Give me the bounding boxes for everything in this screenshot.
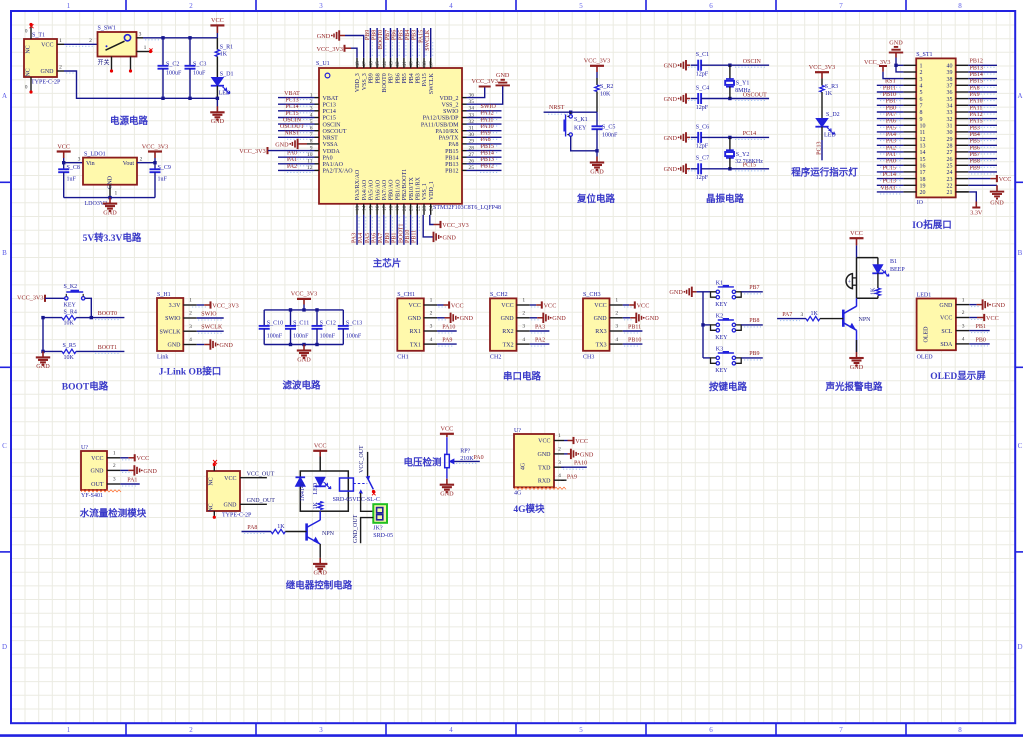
- svg-text:18: 18: [920, 177, 926, 183]
- svg-text:1K: 1K: [220, 52, 228, 58]
- svg-text:41: 41: [402, 61, 408, 67]
- pin 19 PB1/AO of S_U1 (bottom): [396, 204, 398, 215]
- wire / net label PA9: [971, 100, 995, 102]
- svg-text:PB6: PB6: [392, 30, 398, 40]
- wire / net label PB4: [412, 42, 414, 56]
- svg-text:10K: 10K: [64, 320, 75, 326]
- svg-text:SRD-05: SRD-05: [373, 533, 393, 539]
- svg-text:VCC: VCC: [940, 316, 952, 322]
- svg-text:CH2: CH2: [490, 355, 501, 361]
- svg-text:PB8: PB8: [749, 318, 759, 324]
- wire / net label PA10: [438, 332, 454, 334]
- svg-text:PB13: PB13: [445, 162, 458, 168]
- svg-text:S_K2: S_K2: [64, 284, 78, 290]
- svg-text:PB15: PB15: [481, 144, 494, 150]
- switch S_SW1: [98, 32, 137, 57]
- svg-text:电压检测: 电压检测: [403, 457, 442, 469]
- svg-text:GND: GND: [580, 451, 594, 458]
- ground GND above S_U1 (VSS_3 pin 47): [338, 30, 340, 40]
- module LED1 OLED body: [917, 299, 956, 351]
- svg-text:GND: GND: [103, 209, 117, 216]
- svg-text:U?: U?: [81, 445, 88, 451]
- pin 34 of S_ST1: [956, 104, 969, 106]
- pin 1 of S_ST1: [903, 64, 916, 66]
- svg-text:1: 1: [558, 433, 561, 439]
- svg-text:S_R2: S_R2: [600, 84, 613, 90]
- svg-text:KEY: KEY: [715, 368, 728, 374]
- wire VDD_1 to VCC_3V3: [430, 215, 434, 225]
- svg-text:VSSA: VSSA: [323, 142, 339, 148]
- wire / net label PA7: [880, 120, 901, 122]
- svg-text:GND: GND: [664, 96, 678, 103]
- svg-text:S_C5: S_C5: [602, 125, 615, 131]
- wire / net label PA1: [287, 165, 313, 167]
- svg-text:3: 3: [522, 324, 525, 330]
- pin 20 of S_ST1: [903, 191, 916, 193]
- svg-text:A: A: [2, 92, 7, 100]
- svg-text:VCC: VCC: [57, 143, 70, 150]
- svg-text:开关: 开关: [98, 59, 110, 67]
- crystal S_Y1 8MHz: [729, 65, 731, 79]
- LED S_D2: [816, 119, 828, 127]
- pin 7 NRST of S_U1: [315, 136, 320, 138]
- wire / net label PA5: [880, 133, 901, 135]
- pin 12 of S_ST1: [903, 138, 916, 140]
- wire / net label PC14: [880, 180, 901, 182]
- pin 45 PB8 of S_U1 (top): [376, 58, 378, 68]
- pin 9 of S_ST1: [903, 118, 916, 120]
- pin 29 of S_ST1: [956, 138, 969, 140]
- pin 33 of S_ST1: [956, 111, 969, 113]
- svg-text:PA7: PA7: [886, 112, 896, 118]
- svg-text:S_LDO1: S_LDO1: [84, 151, 106, 157]
- svg-text:2: 2: [920, 70, 923, 76]
- crystal S_Y2 32.768KHz: [729, 137, 731, 150]
- svg-text:PC14: PC14: [883, 172, 896, 178]
- wire / net label PB7: [392, 42, 394, 56]
- svg-text:6: 6: [709, 2, 713, 10]
- svg-text:PA10: PA10: [574, 461, 587, 467]
- svg-text:42: 42: [395, 61, 401, 67]
- svg-text:GND: GND: [91, 469, 105, 475]
- svg-text:1K: 1K: [277, 524, 285, 530]
- svg-text:PB1/AO: PB1/AO: [395, 179, 401, 200]
- svg-text:2: 2: [189, 311, 192, 317]
- svg-text:BOOT电路: BOOT电路: [62, 381, 109, 393]
- pin 2 PC13 of S_U1: [315, 103, 320, 105]
- svg-text:GND: GND: [143, 468, 157, 475]
- wire / net label PA0: [287, 158, 313, 160]
- svg-text:4: 4: [522, 337, 525, 343]
- net label BOOT1: [95, 352, 120, 354]
- svg-text:PA0: PA0: [474, 455, 484, 461]
- wire K2 to BOOT0 row: [85, 298, 91, 317]
- svg-text:PB11: PB11: [628, 324, 641, 330]
- pin 0 (shell bottom) of S_T1: [30, 77, 32, 92]
- svg-text:S_D1: S_D1: [220, 71, 234, 77]
- pin 24 of S_ST1: [956, 171, 969, 173]
- capacitor S_C10 100nF: [263, 310, 265, 326]
- wire VSS_1 to GND: [423, 215, 433, 237]
- svg-text:GND: GND: [992, 302, 1006, 309]
- svg-text:24: 24: [429, 205, 435, 211]
- svg-text:16: 16: [920, 164, 926, 170]
- svg-text:GND: GND: [297, 356, 311, 363]
- connector S_T1 TYPE-C-2P: [24, 39, 57, 77]
- svg-text:PA8: PA8: [481, 137, 491, 143]
- svg-text:GND: GND: [664, 166, 678, 173]
- svg-text:2: 2: [430, 311, 433, 317]
- resistor S_R3 1K: [821, 79, 823, 86]
- svg-text:PA0: PA0: [886, 159, 896, 165]
- transistor NPN (alarm): [842, 310, 845, 327]
- svg-text:PB0/AO: PB0/AO: [389, 179, 395, 200]
- svg-text:PB7: PB7: [749, 285, 759, 291]
- resistor S_R1 1K: [216, 38, 218, 50]
- power VCC_3V3 at S_H1.1: [192, 306, 208, 308]
- pin 4 of S_ST1: [903, 84, 916, 86]
- svg-text:8: 8: [920, 110, 923, 116]
- wire / net label PB6: [971, 153, 995, 155]
- wire / net label PB9: [741, 357, 763, 359]
- capacitor S_C11 100nF: [290, 310, 292, 326]
- svg-text:PA4: PA4: [358, 233, 364, 243]
- svg-text:VCC_3V3: VCC_3V3: [317, 46, 343, 53]
- svg-text:PB11: PB11: [883, 85, 896, 91]
- svg-text:NPN: NPN: [859, 317, 872, 323]
- diode 1N4148 (flyback): [296, 476, 306, 478]
- svg-text:S_R5: S_R5: [63, 343, 76, 349]
- svg-text:VCC_3V3: VCC_3V3: [864, 59, 890, 66]
- push button K1 KEY: [716, 290, 719, 293]
- svg-text:1: 1: [67, 726, 71, 734]
- svg-text:GND: GND: [889, 39, 903, 46]
- svg-text:K3: K3: [716, 346, 723, 352]
- buzzer (speaker symbol): [846, 274, 852, 289]
- svg-text:SWIO: SWIO: [481, 104, 497, 110]
- svg-text:40: 40: [947, 64, 953, 70]
- svg-text:PB11: PB11: [412, 230, 418, 243]
- pin 32 of S_ST1: [956, 118, 969, 120]
- svg-text:3: 3: [962, 323, 965, 329]
- svg-text:PB8: PB8: [970, 159, 980, 165]
- svg-text:9: 9: [920, 117, 923, 123]
- ground GND (alarm): [856, 352, 858, 358]
- svg-text:1K: 1K: [811, 311, 819, 317]
- svg-text:Link: Link: [157, 354, 168, 360]
- svg-text:PA10: PA10: [970, 99, 983, 105]
- svg-text:BOOT0: BOOT0: [98, 311, 117, 317]
- wire / net label BOOT1: [405, 217, 407, 231]
- svg-text:BOOT0: BOOT0: [382, 73, 388, 92]
- svg-text:39: 39: [415, 61, 421, 67]
- svg-text:S_C7: S_C7: [696, 156, 709, 162]
- pin 28 of S_ST1: [956, 144, 969, 146]
- svg-text:45: 45: [375, 61, 381, 67]
- svg-text:PA12/USB/DP: PA12/USB/DP: [423, 116, 459, 122]
- svg-text:RST: RST: [885, 79, 896, 85]
- svg-text:PA3: PA3: [351, 233, 357, 243]
- svg-text:PA12: PA12: [481, 111, 494, 117]
- pin 4 PC15 of S_U1: [315, 117, 320, 119]
- wire / net label PB15: [971, 86, 995, 88]
- svg-text:4: 4: [615, 337, 618, 343]
- wire to button S_K2: [45, 297, 65, 299]
- resistor S_R5 10K: [43, 350, 62, 352]
- wire SW1.3 to VCC node: [145, 39, 160, 41]
- svg-text:VCC_OUT: VCC_OUT: [359, 445, 365, 473]
- svg-text:12pF: 12pF: [696, 175, 709, 181]
- wire / net label PB9: [371, 42, 373, 56]
- pin 47 VSS_3 of S_U1 (top): [363, 58, 365, 68]
- pin 40 PB4 of S_U1 (top): [410, 58, 412, 68]
- svg-text:6: 6: [709, 726, 713, 734]
- ground GND (filter): [303, 345, 305, 351]
- pin 0 (shell top) of S_T1: [30, 25, 32, 40]
- svg-text:PA2: PA2: [287, 164, 297, 170]
- svg-text:S_CH3: S_CH3: [583, 292, 601, 298]
- pin 13 of S_ST1: [903, 144, 916, 146]
- svg-text:B: B: [2, 249, 7, 257]
- svg-text:PB9: PB9: [749, 351, 759, 357]
- capacitor S_C12 100nF: [316, 310, 318, 326]
- svg-text:VCC: VCC: [637, 302, 650, 309]
- svg-text:GND: GND: [552, 315, 566, 322]
- svg-text:S_C8: S_C8: [67, 165, 80, 171]
- svg-text:PB9: PB9: [365, 30, 371, 40]
- wire / net label PB15: [480, 152, 499, 154]
- bottom pins of S_SW1 (unconnected): [111, 57, 113, 71]
- wire / net label PB10: [880, 100, 901, 102]
- svg-text:PC13: PC13: [883, 179, 896, 185]
- svg-text:RX2: RX2: [502, 329, 513, 335]
- header S_H1 (J-Link OB): [157, 298, 183, 351]
- svg-text:PB14: PB14: [970, 72, 983, 78]
- wire / net label PB3: [971, 133, 995, 135]
- svg-text:PA9: PA9: [970, 92, 980, 98]
- wire LDO Vout to VCC_3V3: [137, 162, 155, 164]
- pin 6 of S_ST1: [903, 98, 916, 100]
- pin 18 of S_ST1: [903, 178, 916, 180]
- wire / net label PB9: [971, 173, 995, 175]
- svg-text:36: 36: [947, 90, 953, 96]
- svg-text:TYPE-C-2P: TYPE-C-2P: [222, 513, 252, 519]
- wire alarm bottom rail: [857, 297, 878, 299]
- wire / net label PB0: [880, 113, 901, 115]
- svg-text:GND: GND: [408, 316, 422, 322]
- svg-text:10K: 10K: [64, 355, 75, 361]
- svg-text:PB7: PB7: [385, 30, 391, 40]
- wire / net label PA9: [438, 345, 454, 347]
- wire VCC_OUT to relay contact (rotated label): [367, 452, 369, 478]
- pin 39 of S_ST1: [956, 71, 969, 73]
- wire / net label PA1: [880, 160, 901, 162]
- svg-text:S_Y1: S_Y1: [736, 81, 750, 87]
- wire / net label PB7: [741, 291, 763, 293]
- pin 5 of S_ST1: [903, 91, 916, 93]
- svg-text:SWCLK: SWCLK: [429, 73, 435, 95]
- ground GND (BOOT): [41, 350, 44, 353]
- svg-text:PA1: PA1: [886, 152, 896, 158]
- svg-text:S_K1: S_K1: [574, 117, 588, 123]
- svg-text:PB7: PB7: [970, 152, 980, 158]
- svg-text:BOOT0: BOOT0: [378, 30, 384, 49]
- pin 3 PC14 of S_U1: [315, 110, 320, 112]
- wire / net label PA5: [371, 217, 373, 231]
- terminal JK? SRD-05 (green connector): [373, 504, 387, 523]
- svg-text:NC: NC: [26, 68, 32, 76]
- wire / net label SWIO: [480, 112, 499, 114]
- svg-text:STM32F103C8T6_LQFP48: STM32F103C8T6_LQFP48: [433, 205, 501, 211]
- svg-text:VCC: VCC: [451, 302, 464, 309]
- pin 15 PA5/AO of S_U1 (bottom): [369, 204, 371, 215]
- wire base / resistor 1K / net label PA8: [242, 531, 272, 533]
- svg-text:8: 8: [958, 2, 962, 10]
- pin 34 SWIO of S_U1 (right): [462, 110, 467, 112]
- pin 31 of S_ST1: [956, 124, 969, 126]
- svg-text:PB8: PB8: [375, 73, 381, 83]
- svg-text:S_C4: S_C4: [696, 85, 709, 91]
- svg-text:SWCLK: SWCLK: [425, 29, 431, 51]
- svg-text:PC15: PC15: [285, 111, 298, 117]
- pin 37 SWCLK of S_U1 (top): [430, 58, 432, 68]
- pin 10 of S_ST1: [903, 124, 916, 126]
- svg-text:GND: GND: [41, 69, 55, 75]
- wire emitter to GND (alarm): [856, 330, 858, 352]
- svg-text:5V转3.3V电路: 5V转3.3V电路: [83, 232, 142, 244]
- svg-text:CH3: CH3: [583, 355, 594, 361]
- wire / net label PA9: [480, 138, 499, 140]
- svg-text:GND: GND: [211, 118, 225, 125]
- wire / net label PA1: [122, 485, 138, 487]
- svg-text:VCC: VCC: [211, 17, 224, 24]
- wire / net label PA4: [880, 140, 901, 142]
- pin 28 PB15 of S_U1 (right): [462, 150, 467, 152]
- svg-text:8: 8: [958, 726, 962, 734]
- wire / net label NRST: [287, 138, 313, 140]
- wire / net label PA2: [531, 345, 547, 347]
- svg-text:VCC: VCC: [538, 439, 550, 445]
- svg-text:NC: NC: [26, 45, 32, 53]
- header S_ST1 body: [916, 58, 956, 197]
- svg-text:32: 32: [947, 117, 953, 123]
- svg-text:3: 3: [319, 2, 323, 10]
- svg-text:20: 20: [920, 190, 926, 196]
- push button K3 KEY: [716, 356, 719, 359]
- svg-text:38: 38: [947, 77, 953, 83]
- svg-text:26: 26: [947, 157, 953, 163]
- svg-text:PA2: PA2: [886, 145, 896, 151]
- svg-text:37: 37: [429, 61, 435, 67]
- svg-text:1uF: 1uF: [158, 176, 168, 182]
- pin 22 PB11/RX of S_U1 (bottom): [416, 204, 418, 215]
- svg-text:4: 4: [558, 473, 561, 479]
- svg-text:VCC_3V3: VCC_3V3: [212, 302, 238, 309]
- svg-text:4G: 4G: [514, 491, 522, 497]
- svg-text:PA11: PA11: [970, 105, 983, 111]
- svg-text:7: 7: [920, 104, 923, 110]
- svg-text:31: 31: [947, 124, 953, 130]
- svg-text:PA15: PA15: [422, 73, 428, 86]
- svg-text:PB0: PB0: [385, 233, 391, 243]
- pin 15 of S_ST1: [903, 158, 916, 160]
- svg-text:3: 3: [139, 31, 142, 37]
- wire top rail (filter): [264, 309, 343, 311]
- svg-text:GND: GND: [440, 491, 454, 498]
- svg-text:S_D2: S_D2: [826, 112, 840, 118]
- relay contact (dashed link): [353, 483, 367, 485]
- svg-text:PA5: PA5: [365, 233, 371, 243]
- svg-text:RX1: RX1: [410, 329, 421, 335]
- svg-text:S_C1: S_C1: [696, 52, 709, 58]
- svg-text:RP?: RP?: [460, 448, 470, 454]
- svg-text:2: 2: [558, 447, 561, 453]
- svg-text:VCC: VCC: [575, 438, 588, 445]
- svg-text:GND: GND: [219, 342, 233, 349]
- svg-text:2: 2: [522, 311, 525, 317]
- svg-text:PB4: PB4: [405, 30, 411, 40]
- pin 21 PB10/TX of S_U1 (bottom): [410, 204, 412, 215]
- svg-text:PB5: PB5: [970, 139, 980, 145]
- connector TYPE-C-2P (relay output power): [207, 471, 240, 511]
- svg-text:VSS_1: VSS_1: [422, 183, 428, 200]
- svg-text:PC13: PC13: [323, 102, 336, 108]
- svg-text:SWIO: SWIO: [443, 109, 459, 115]
- svg-text:BOOT1: BOOT1: [98, 345, 117, 351]
- svg-text:PB11/RX: PB11/RX: [416, 176, 422, 200]
- wire relay collector: [319, 511, 321, 520]
- ground GND at S_CH2.2: [531, 319, 540, 321]
- svg-text:GND: GND: [224, 503, 238, 509]
- svg-text:7: 7: [839, 726, 843, 734]
- svg-text:PA8: PA8: [970, 85, 980, 91]
- svg-text:C: C: [2, 442, 7, 450]
- wire VCC to LDO Vin: [64, 162, 83, 164]
- ground GND (power circuit): [216, 97, 219, 100]
- svg-text:程序运行指示灯: 程序运行指示灯: [791, 167, 858, 179]
- ground GND (keys): [691, 287, 693, 297]
- power VCC at LED1.2: [971, 319, 982, 321]
- wire / net label PA4: [365, 217, 367, 231]
- svg-text:S_C6: S_C6: [696, 124, 709, 130]
- svg-text:NC: NC: [209, 503, 215, 511]
- svg-text:PA15: PA15: [970, 119, 983, 125]
- svg-text:PB14: PB14: [481, 150, 494, 156]
- ground GND (VSS_2): [496, 84, 510, 86]
- pin 9 VDDA of S_U1: [315, 150, 320, 152]
- wire / net label PB10: [412, 217, 414, 231]
- svg-text:GND: GND: [496, 72, 510, 79]
- wire / net label PA2: [287, 171, 313, 173]
- svg-text:PB8: PB8: [372, 30, 378, 40]
- svg-text:GND: GND: [501, 316, 515, 322]
- capacitor S_C3 10uF: [189, 38, 191, 66]
- svg-text:3: 3: [78, 156, 81, 162]
- svg-text:复位电路: 复位电路: [576, 193, 616, 205]
- svg-text:VCC: VCC: [314, 443, 327, 450]
- wire / net label SWCLK: [198, 332, 222, 334]
- svg-text:SWIO: SWIO: [201, 311, 217, 317]
- wire / net label PB0: [971, 345, 988, 347]
- wire VDD_2 to VCC_3V3: [467, 87, 485, 98]
- LED (relay, rotated label): [315, 477, 325, 486]
- svg-text:PB10: PB10: [883, 92, 896, 98]
- pin 19 of S_ST1: [903, 184, 916, 186]
- svg-text:PA4/AO: PA4/AO: [362, 179, 368, 200]
- svg-text:11: 11: [920, 130, 926, 136]
- svg-text:OLED: OLED: [917, 355, 934, 361]
- svg-text:3: 3: [615, 324, 618, 330]
